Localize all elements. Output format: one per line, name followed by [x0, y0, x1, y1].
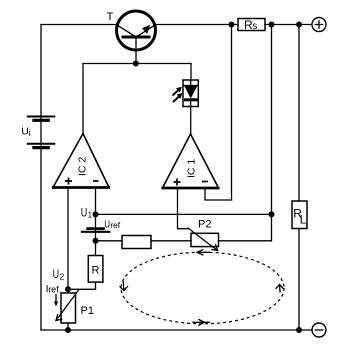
- wire Rs right sense down: [271, 25, 273, 215]
- wire base node horizontal: [83, 63, 191, 65]
- wire Rs left feedback down: [231, 25, 233, 201]
- svg-text:ref: ref: [48, 284, 59, 294]
- wire IC1 output up to photodiode: [190, 107, 192, 135]
- arrow Iref down: [54, 295, 58, 307]
- svg-text:ref: ref: [110, 220, 121, 230]
- wire IC2 minus input down: [95, 188, 97, 215]
- wire P2 right to node: [219, 214, 272, 240]
- node Uref bottom: [93, 238, 99, 244]
- wire to photodiode: [190, 64, 192, 81]
- svg-text:2: 2: [60, 272, 65, 282]
- loop arrow top (left): [197, 250, 210, 255]
- svg-text:s: s: [252, 21, 257, 32]
- node right of Rs: [269, 22, 275, 28]
- svg-text:U: U: [81, 208, 88, 220]
- series resistor (unlabeled): [122, 236, 151, 249]
- loop arrow left (down): [120, 282, 128, 291]
- svg-text:U: U: [21, 126, 29, 138]
- node RL bottom: [296, 327, 302, 333]
- svg-text:U: U: [104, 218, 110, 230]
- svg-text:IC 1: IC 1: [186, 159, 198, 178]
- resistor R: [88, 256, 103, 283]
- wire top rail from left corner to transistor: [41, 24, 116, 26]
- dashed current loop ellipse: [121, 252, 284, 324]
- terminal minus: [312, 323, 326, 337]
- svg-text:IC 2: IC 2: [77, 157, 89, 176]
- battery Uref: [81, 218, 121, 232]
- wire R bottom to U2 node: [68, 282, 96, 289]
- node P2 right top: [269, 211, 275, 217]
- wire left vertical rail (Ui branch): [40, 25, 42, 331]
- wire IC1 plus input to P2 wiper: [178, 188, 189, 229]
- op-amp IC1: [162, 134, 220, 188]
- wire to IC2 output: [82, 64, 84, 134]
- node U1: [93, 211, 99, 217]
- node P1 bottom: [65, 327, 71, 333]
- wire IC2 plus input down: [67, 188, 69, 290]
- node junction under transistor: [133, 61, 139, 67]
- resistor Rs: [238, 18, 265, 32]
- wire RL bottom to rail: [298, 229, 300, 331]
- wire transistor base to node: [135, 50, 137, 64]
- potentiometer P2: [188, 218, 219, 250]
- wire IC1 minus input feedback: [205, 188, 232, 200]
- battery Ui: [21, 117, 55, 148]
- wire transistor emitter to Rs: [156, 24, 238, 26]
- node top of RL: [296, 22, 302, 28]
- resistor RL: [292, 201, 307, 229]
- svg-text:U: U: [53, 269, 60, 281]
- svg-text:T: T: [107, 11, 114, 23]
- svg-text:R: R: [92, 265, 100, 277]
- transistor T: [107, 11, 156, 50]
- wire U1 to R: [95, 214, 97, 255]
- op-amp IC2: [52, 134, 110, 188]
- potentiometer P1: [56, 290, 94, 324]
- loop arrow right (up): [276, 285, 283, 293]
- wire Rs to plus terminal: [265, 24, 312, 26]
- terminal plus: [312, 18, 326, 32]
- photodiode D: [173, 80, 199, 107]
- loop arrow bottom (right): [193, 320, 210, 326]
- node U2: [65, 286, 71, 292]
- wire U1 node to P2 right branch: [96, 213, 272, 215]
- svg-text:1: 1: [88, 211, 93, 220]
- node left of Rs: [229, 22, 235, 28]
- svg-text:P2: P2: [198, 218, 211, 230]
- wire P1 bottom to rail: [67, 323, 69, 330]
- wire series resistor to P2: [151, 240, 191, 242]
- wire node to series resistor: [96, 240, 123, 242]
- svg-text:i: i: [29, 128, 31, 138]
- svg-text:L: L: [300, 214, 307, 226]
- wire bottom rail: [41, 329, 312, 331]
- wire plus rail down to RL: [298, 25, 300, 202]
- svg-text:P1: P1: [81, 305, 94, 317]
